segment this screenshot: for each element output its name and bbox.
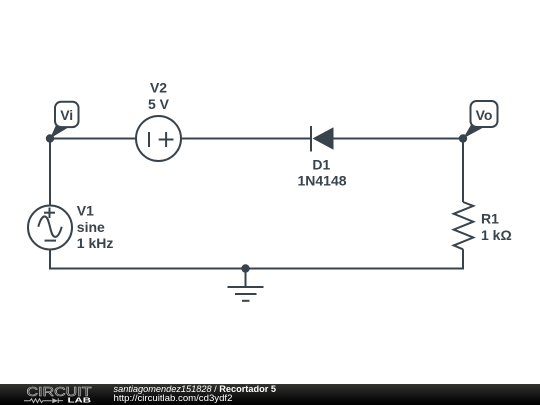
node Vi flag [50,102,79,139]
footer title text [114,385,276,394]
diode D1 [311,126,334,152]
node dot ground junction [241,264,249,272]
node dot Vi [46,134,54,142]
svg-text:5 V: 5 V [148,96,170,112]
resistor R1 [454,202,474,249]
wire left vertical [49,139,51,206]
svg-text:LAB: LAB [68,395,92,404]
svg-text:R1: R1 [481,211,499,227]
voltage source V2 [136,116,181,161]
svg-text:Vi: Vi [60,107,73,123]
label V2 value [148,80,170,112]
ground [228,287,264,301]
node dot Vo [459,134,467,142]
label R1 value [481,211,512,243]
wire ground stem [245,269,247,288]
svg-text:1 kHz: 1 kHz [77,235,114,251]
svg-text:sine: sine [77,219,105,235]
voltage source V1 sine [28,206,72,250]
wire top rail left [50,138,136,140]
svg-text:V1: V1 [77,203,94,219]
svg-text:1 kΩ: 1 kΩ [481,227,512,243]
svg-text:Vo: Vo [476,107,493,123]
label V1 value [77,203,114,252]
svg-text:V2: V2 [150,80,167,96]
wire top rail right [334,138,464,140]
svg-text:D1: D1 [312,156,330,172]
node Vo flag [463,101,498,139]
CircuitLab logo [0,384,110,405]
wire top rail middle [181,138,310,140]
wire right vertical top [462,139,464,203]
footer bar [0,384,540,405]
svg-text:1N4148: 1N4148 [297,173,346,189]
footer url text [114,394,233,403]
label D1 value [297,156,346,188]
wire bottom rail with corners [50,249,463,268]
